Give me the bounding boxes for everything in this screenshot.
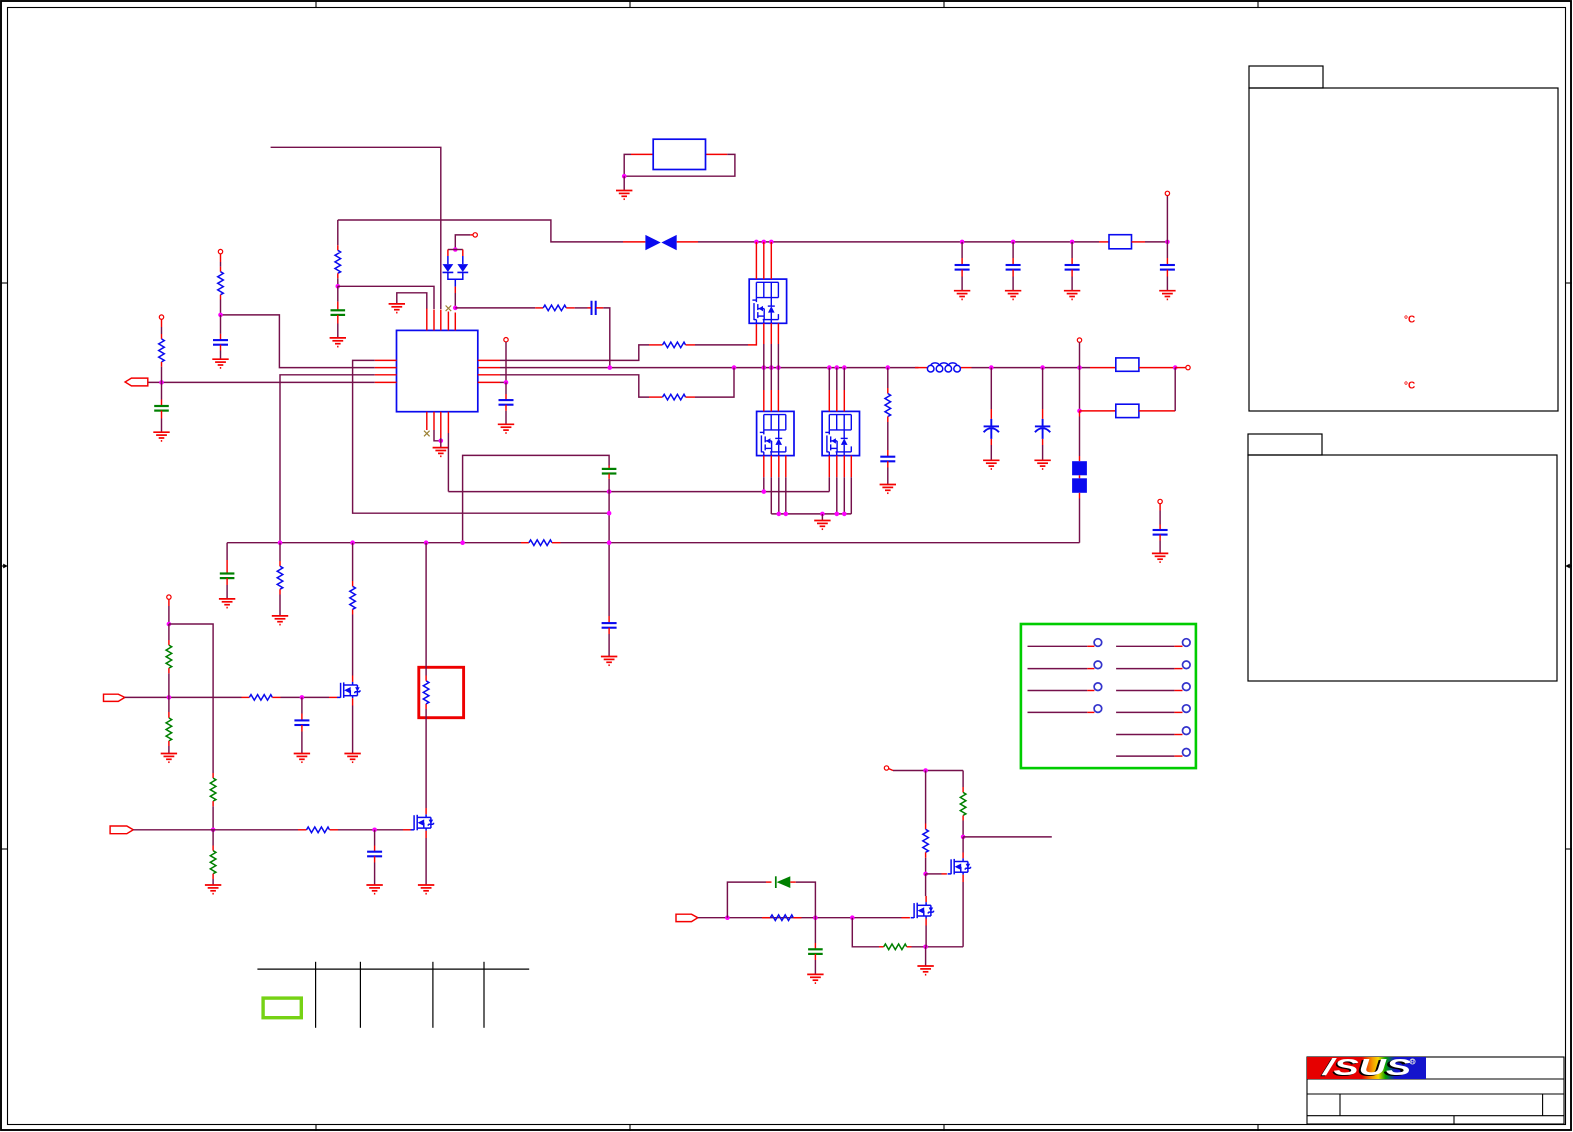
battery/fuse component F1 at top center xyxy=(616,139,735,199)
capacitor C13 green xyxy=(220,574,235,579)
capacitor C1 with ground xyxy=(954,242,970,300)
wire IC bottom pins B2/B3 to ground xyxy=(434,430,441,441)
left column: R21 down to Q6 xyxy=(923,771,929,903)
no-connect X on IC bottom pin B1 xyxy=(424,431,430,437)
ground col R6 xyxy=(153,432,169,441)
terminal circle col C9 xyxy=(504,338,508,342)
note box 2 tab xyxy=(1248,434,1322,455)
junction VOUT cap C14 xyxy=(989,365,994,370)
red stub from circle xyxy=(889,769,893,771)
junction PGND2 Q2 pin d xyxy=(784,512,789,517)
diode D1 bowtie xyxy=(645,235,676,250)
resistor R24 green on SRC xyxy=(884,944,907,950)
wire net C: rail from bowtie to filter caps and fuse L1 xyxy=(698,241,1099,243)
wire right loop of F1 xyxy=(706,153,728,155)
divider column: circle, R14, R15 to ground xyxy=(161,595,177,762)
zone tick right upper xyxy=(1566,282,1573,284)
CN1 left pin wire 1 xyxy=(1028,639,1102,647)
title block divider a xyxy=(1339,1094,1341,1116)
wire net L2: IC left pin 2 up-left to R3 node xyxy=(221,315,375,368)
Q2 bottom pin wires xyxy=(764,456,786,514)
zone tick left lower xyxy=(1,848,8,850)
junction SW at RC node xyxy=(608,365,613,370)
svg-text:°C: °C xyxy=(1404,314,1415,325)
Q3 top pin wires from SW rail xyxy=(829,368,844,412)
wire net SRC: Q6 source rail xyxy=(852,918,879,947)
junction SW M1/M2 pin c xyxy=(776,365,781,370)
junction VOUT cap C15 xyxy=(1040,365,1045,370)
resistor R10 snubber xyxy=(885,394,891,417)
mosfet Q6 (small, low side) xyxy=(911,902,934,918)
junction bus at L1 column xyxy=(350,540,355,545)
junction drain tap xyxy=(961,835,966,840)
ground bypass xyxy=(1152,553,1168,562)
revision table top rule xyxy=(257,968,529,970)
ASUS logo xyxy=(1307,1054,1426,1081)
port P3 (input tag, points right) xyxy=(110,826,133,834)
wire IC pin T1 to ground jog xyxy=(397,293,427,309)
junction at input2 wire xyxy=(211,828,216,833)
resistor R18 xyxy=(350,586,356,609)
junction column609 at L1 wire xyxy=(607,511,612,516)
ground Q5 xyxy=(418,885,434,894)
CN1 right pin wire 4 xyxy=(1116,705,1190,713)
zone tick top 3 xyxy=(943,1,945,8)
D2 cathode bars xyxy=(443,271,469,273)
wire net L1: IC left pin 1 to MOSFET column xyxy=(353,360,609,513)
capacitor C14 polarized with ground xyxy=(983,368,999,469)
junction rail-C M1 pin a xyxy=(754,240,759,245)
wire net A: top long wire to IC pin T3 xyxy=(271,147,441,309)
junction rail-C M1 pin c xyxy=(769,240,774,245)
revision table column line 4 xyxy=(483,962,485,1028)
mosfet Q2 (boxed pair) xyxy=(757,411,794,455)
junction rail-C M1 pin b xyxy=(762,240,767,245)
Q5 source wire to ground xyxy=(425,831,427,838)
capacitor C8 green xyxy=(154,406,169,411)
capacitor C2 with ground xyxy=(1005,242,1021,300)
wire fuse L1 to node xyxy=(1145,241,1167,243)
ground stub below SRC junction xyxy=(925,947,927,966)
title block divider b xyxy=(1542,1094,1544,1116)
ground snubber xyxy=(880,485,896,494)
capacitor C12 xyxy=(602,623,617,628)
resistor R2 xyxy=(543,305,566,311)
wire net BUS: long horizontal feedback bus xyxy=(227,542,521,544)
terminal circle feed xyxy=(884,766,888,770)
IC U1 body xyxy=(397,330,478,411)
svg-text:/SUS: /SUS xyxy=(1321,1054,1412,1080)
red stub out of fuse L1 xyxy=(1132,241,1146,243)
resistor R13 xyxy=(249,695,272,701)
junction G2 at cap C18 xyxy=(372,828,377,833)
zone tick left upper xyxy=(1,282,8,284)
revision table column line 2 xyxy=(359,962,361,1028)
junction PGND2 Q2 pin c xyxy=(777,512,782,517)
Q6 source down to junction xyxy=(925,919,927,926)
connector pins inside CN1 xyxy=(1028,639,1191,756)
wire left loop of F1 xyxy=(631,153,653,155)
zone tick top 2 xyxy=(629,1,631,8)
Q1 bottom pin wires to SW rail xyxy=(764,323,779,367)
junction R1/C5 node xyxy=(336,284,341,289)
resistor R21 xyxy=(923,829,929,852)
D2 bottom joins xyxy=(448,272,463,286)
ground below C5 xyxy=(330,338,346,347)
junction G3 mid xyxy=(813,915,818,920)
ground at IC pin T1 xyxy=(389,304,405,313)
junction SW M3 pin c xyxy=(842,365,847,370)
wire RS2 up to output node xyxy=(1174,368,1176,411)
zone tick top 1 xyxy=(315,1,317,8)
wire net D: R1 node to IC pin T2 xyxy=(338,286,434,309)
component body F1 xyxy=(653,139,705,169)
terminal circle above VOUT node xyxy=(1077,338,1081,342)
junction IC pin T5 node xyxy=(453,306,458,311)
junction PGND1 at Q2 pin xyxy=(762,489,767,494)
Q2 top pin wires from SW rail xyxy=(764,368,779,412)
junction R3 node xyxy=(218,313,223,318)
junction SW M3 pin b xyxy=(835,365,840,370)
ground under IC xyxy=(433,448,449,457)
capacitor C7 xyxy=(213,340,228,345)
junction right pin 4 xyxy=(504,380,509,385)
wire net G1: port P2 to Q4 gate xyxy=(125,696,242,698)
wire node to terminal circle xyxy=(1166,196,1168,242)
IC U1 left pin stubs xyxy=(375,360,397,382)
wire net SW: switching rail from IC right pin 2 across xyxy=(500,367,919,369)
second divider column R16/R17 xyxy=(205,773,221,894)
sense branch: junction below VOUT node xyxy=(1077,368,1175,418)
resistor R1 xyxy=(335,250,341,273)
inductor L2 on SW rail xyxy=(915,363,972,372)
mosfet Q1 (boxed pair) xyxy=(749,279,786,323)
terminal circle col R6 xyxy=(159,315,163,319)
Q4 drain wire up through R18 to L1 column xyxy=(350,543,356,682)
center arrow right xyxy=(1565,564,1572,569)
ground col L3 xyxy=(272,616,288,625)
capacitor C10 snubber xyxy=(880,457,895,462)
title block divider c xyxy=(1453,1116,1455,1124)
wire net L3: IC left pin 3 down to bus xyxy=(280,375,375,543)
terminal circle VCC1 xyxy=(1165,191,1169,195)
note box 1 tab xyxy=(1249,66,1323,88)
Q4 source wire to ground xyxy=(352,698,354,705)
junction rail-C cap C2 xyxy=(1011,240,1016,245)
terminal circle col R3 xyxy=(218,249,222,253)
junction PGND2 ground tap xyxy=(820,512,825,517)
diode D3 green parallel branch xyxy=(727,876,815,917)
D2 red stem to node xyxy=(454,287,456,293)
junction SRC at Q6 xyxy=(923,945,928,950)
wire circle to VOUT node xyxy=(1079,342,1081,367)
junction at output node xyxy=(1173,365,1178,370)
junction bus at red-box column xyxy=(424,540,429,545)
wire net FB loop: bus riser to green cap to PGND1 xyxy=(463,455,617,542)
resistor R11 on bus xyxy=(529,540,552,546)
column R6: circle, resistor, green cap to ground on net L4 xyxy=(153,315,169,441)
zone tick bottom 3 xyxy=(943,1125,945,1132)
column R3: terminal circle, resistor, cap to ground xyxy=(212,249,228,368)
resistor R22 green xyxy=(960,792,966,815)
CN1 right pin wire 3 xyxy=(1116,683,1190,691)
ground bus-left xyxy=(219,599,235,608)
red stub from circle xyxy=(470,234,473,236)
ground PGND2 xyxy=(814,521,830,530)
ground SRC xyxy=(917,966,933,975)
junction bus at L3 column xyxy=(278,540,283,545)
D2 left triangle xyxy=(443,264,454,272)
ground C19 xyxy=(807,974,823,983)
CN1 left pin wire 3 xyxy=(1028,683,1102,691)
junction rail-C cap C1 xyxy=(960,240,965,245)
IC U1 top pin stubs xyxy=(427,309,456,331)
junction SW M1/M2 pin a xyxy=(762,365,767,370)
red stub into bowtie left xyxy=(623,241,645,243)
junction PGND2 Q3 pin b xyxy=(835,512,840,517)
junction bus at column 609 xyxy=(607,540,612,545)
capacitor C18 column xyxy=(366,830,382,894)
ground divider xyxy=(161,754,177,763)
mosfet Q4 (small) xyxy=(337,682,360,698)
resistor R20 in red box xyxy=(423,681,429,704)
junction SW snubber column xyxy=(886,365,891,370)
resistor R7 xyxy=(663,342,686,348)
mosfet Q5 (small) xyxy=(411,814,434,830)
capacitor C6 series xyxy=(592,301,596,315)
wire net B: upper rail from R1 column to bowtie diode xyxy=(338,220,623,242)
CN1 left pin wire 4 xyxy=(1028,705,1102,713)
wire IC bottom pin B4 down to source rail xyxy=(447,433,449,492)
red stub into fuse L1 xyxy=(1099,241,1109,243)
CN1 left pin wire 2 xyxy=(1028,661,1102,669)
capacitor C16 xyxy=(1153,530,1168,535)
resistor R17 green xyxy=(210,851,216,874)
terminal circle output xyxy=(1186,365,1190,369)
IC U1 right pin stubs xyxy=(478,360,500,382)
bottom-right block xyxy=(676,766,1052,983)
junction rail-C cap C3 xyxy=(1070,240,1075,245)
junction SW M3 pin a xyxy=(827,365,832,370)
column L3 below bus: resistor to ground xyxy=(272,543,288,625)
fuse/bead L1 xyxy=(1109,235,1132,249)
junction PGND1 at loop column xyxy=(607,489,612,494)
bottom-left block xyxy=(104,543,464,894)
revision table column line 3 xyxy=(432,962,434,1028)
CN1 right pin wire 2 xyxy=(1116,661,1190,669)
resistor R6 xyxy=(159,339,165,362)
output resistor RS1 (box) xyxy=(1090,358,1190,371)
Q1 top pin wires to rail C xyxy=(756,242,771,279)
title block row line 2 xyxy=(1307,1093,1564,1095)
resistor R3 xyxy=(218,272,224,295)
junction under IC xyxy=(439,439,444,444)
wire circle to D2 top xyxy=(455,235,470,250)
standalone bypass: circle, cap C16, ground at right xyxy=(1152,499,1168,562)
CN1 right pin wire 5 xyxy=(1116,727,1190,735)
wire net G2: port P3 to Q5 gate xyxy=(133,829,298,831)
junction G1 at divider column xyxy=(167,695,172,700)
ground col 609 xyxy=(601,657,617,666)
mosfet Q7 (small, high side) xyxy=(948,858,971,874)
wire column 609 to bus and cap C12 xyxy=(601,492,617,666)
junction feed rail left column xyxy=(923,768,928,773)
no-connect X on IC pin T4 xyxy=(446,306,452,312)
wire net G3: port P4 to Q6 gate xyxy=(698,917,902,919)
resistor R9 xyxy=(663,394,686,400)
resistor R12 xyxy=(277,566,283,589)
port P1 (output tag, points left) xyxy=(125,378,148,386)
wire net VOUT: rail after inductor xyxy=(972,367,1091,369)
capacitor C17 column on G1 xyxy=(294,697,310,762)
thermistor RT1 column (solid blue blocks) to bus xyxy=(1072,411,1087,543)
dual diode D2 to IC pin T5 xyxy=(443,233,478,311)
red stub out of bowtie right xyxy=(677,241,698,243)
capacitor C11 green in loop xyxy=(602,469,617,474)
mosfet Q3 (boxed pair) xyxy=(822,411,859,455)
resistor R16 green xyxy=(210,778,216,801)
ground col C9 xyxy=(498,424,514,433)
bus left end column: green cap to ground xyxy=(219,543,235,608)
Q3 bottom pin wires xyxy=(829,456,851,514)
resistor R1 column with green cap xyxy=(330,220,346,347)
capacitor C15 polarized with ground xyxy=(1034,368,1050,469)
revision table column line 1 xyxy=(315,962,317,1028)
zone tick bottom 1 xyxy=(315,1125,317,1132)
zone tick bottom 4 xyxy=(1257,1125,1259,1132)
center arrow left xyxy=(1,564,8,569)
IC U1 bottom pin stubs xyxy=(427,412,449,438)
junction SW at R9 riser xyxy=(732,365,737,370)
D2 right triangle xyxy=(457,264,468,272)
Q5 drain wire up through R20 to bus xyxy=(423,543,429,815)
junction divider top xyxy=(167,622,172,627)
D2 top bar xyxy=(448,249,463,251)
ground col R3 xyxy=(212,359,228,368)
ground stub on PGND2 xyxy=(821,514,823,521)
Q7 source wire down to sense rail xyxy=(962,875,964,882)
title block outline xyxy=(1307,1057,1564,1124)
port P2 (input tag, points right) xyxy=(104,694,125,701)
right column: R22 down to Q7 xyxy=(960,771,1052,859)
junction gate tap xyxy=(923,872,928,877)
resistor R14 green xyxy=(166,645,172,668)
snubber column: resistor + cap to ground xyxy=(880,368,896,494)
wire net E: pin T5 node through RC to SW node xyxy=(455,301,610,368)
ground C18 xyxy=(366,885,382,894)
title block row line 3 xyxy=(1307,1115,1564,1117)
title block row line 1 xyxy=(1307,1078,1564,1080)
port P4 (input tag, points right) xyxy=(676,914,698,921)
wire net PGND2: source rail lower xyxy=(771,513,851,515)
capacitor C9 xyxy=(499,400,514,405)
D2 branch red stubs top xyxy=(447,250,449,257)
zone tick right lower xyxy=(1566,848,1573,850)
ground Q4 xyxy=(344,754,360,763)
junction node VCC1 xyxy=(1165,240,1170,245)
junction at F1 ground xyxy=(622,174,627,179)
junction PGND2 Q3 pin c xyxy=(842,512,847,517)
junction VOUT sense column xyxy=(1077,365,1082,370)
terminal circle at D2 xyxy=(473,233,477,237)
red highlight box around R20 xyxy=(419,667,464,717)
D2 branch blue stems xyxy=(448,256,463,264)
output resistor RS2 (box) lower xyxy=(1080,410,1116,412)
junction G1 at cap C17 xyxy=(300,695,305,700)
resistor R15 green xyxy=(166,718,172,741)
junction G3 right xyxy=(850,915,855,920)
resistor R19 xyxy=(307,827,330,833)
wire branch divider to second column xyxy=(169,624,213,773)
wire net F1: feed rail xyxy=(893,770,963,772)
junction on net L4 xyxy=(159,380,164,385)
wire net R4 node: right pin 4 to terminal column xyxy=(498,338,514,434)
ground C17 xyxy=(294,754,310,763)
capacitor C3 with ground xyxy=(1064,242,1080,300)
wire net to right stub xyxy=(963,836,1052,838)
highlight box green xyxy=(263,998,301,1018)
wire net R3j: right pin 3 jog to resistor R9 riser xyxy=(500,368,734,400)
capacitor C5 green xyxy=(331,310,346,315)
junction D2 top xyxy=(453,247,458,252)
junction SW M1/M2 pin b xyxy=(769,365,774,370)
wire net R1: right pin 1 jog to gate resistor R7 and M1 xyxy=(500,323,756,360)
connector block outline CN1 xyxy=(1021,624,1196,768)
wire gate tap to Q7 gate xyxy=(926,873,942,875)
junction bus at loop riser xyxy=(460,540,465,545)
ground second divider xyxy=(205,885,221,894)
wire net L4: input port to IC left pin 4 xyxy=(148,381,375,383)
wire net PGND1: source rail upper xyxy=(448,491,829,493)
junction G3 left xyxy=(725,915,730,920)
resistor R23 on G3 xyxy=(762,915,802,921)
ground below F1 xyxy=(616,191,632,200)
zone tick bottom 2 xyxy=(629,1125,631,1132)
CN1 right pin wire 1 xyxy=(1116,639,1190,647)
capacitor C19 green column xyxy=(807,918,823,983)
note box 2 body xyxy=(1248,455,1557,681)
zone tick top 4 xyxy=(1257,1,1259,8)
wire stub to ground xyxy=(623,176,625,190)
note box 1 body xyxy=(1249,88,1558,411)
svg-text:R: R xyxy=(1411,1060,1415,1066)
capacitor C4 with ground xyxy=(1159,242,1175,300)
svg-text:°C: °C xyxy=(1404,381,1415,392)
CN1 right pin wire 6 xyxy=(1116,749,1190,757)
D3 cathode bar xyxy=(775,876,777,888)
D3 triangle xyxy=(777,876,791,888)
